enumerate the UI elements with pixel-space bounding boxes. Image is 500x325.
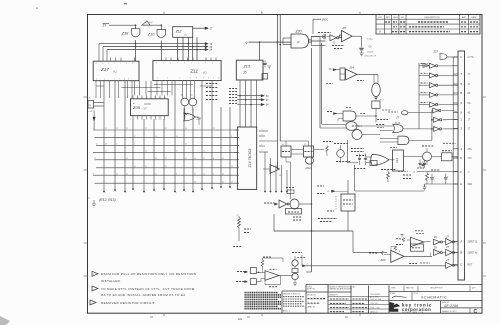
svg-text:MODEL NO: MODEL NO bbox=[307, 295, 317, 297]
svg-text:ITEM: ITEM bbox=[391, 288, 396, 290]
svg-text:2: 2 bbox=[120, 63, 121, 65]
svg-text:SHEET 1 OF 2: SHEET 1 OF 2 bbox=[442, 311, 457, 313]
svg-text:1: 1 bbox=[194, 192, 195, 194]
svg-text:K2: K2 bbox=[114, 70, 118, 74]
svg-text:2(RET 5): 2(RET 5) bbox=[468, 241, 478, 244]
svg-text:H: H bbox=[460, 182, 462, 186]
svg-text:7: 7 bbox=[163, 63, 164, 65]
svg-text:7: 7 bbox=[222, 188, 223, 190]
svg-text:INSTALLED.: INSTALLED. bbox=[101, 279, 121, 283]
svg-text:Z24: Z24 bbox=[395, 158, 399, 163]
svg-text:(Z12): (Z12) bbox=[305, 166, 311, 170]
svg-text:9: 9 bbox=[205, 63, 206, 65]
svg-text:REMOVED RESISTOR CIRCUIT.: REMOVED RESISTOR CIRCUIT. bbox=[101, 301, 156, 305]
svg-text:1: 1 bbox=[177, 63, 178, 65]
svg-text:4: 4 bbox=[104, 78, 105, 80]
svg-text:0: 0 bbox=[96, 63, 97, 65]
svg-text:15: 15 bbox=[126, 158, 128, 160]
svg-text:35: 35 bbox=[126, 128, 128, 130]
svg-text:29: 29 bbox=[433, 246, 437, 250]
svg-text:17: 17 bbox=[145, 128, 147, 130]
svg-text:Z09: Z09 bbox=[132, 105, 141, 110]
svg-text:~1.8μs: ~1.8μs bbox=[366, 39, 374, 41]
svg-text:20: 20 bbox=[203, 173, 205, 175]
svg-text:46: 46 bbox=[185, 128, 187, 130]
svg-text:6: 6 bbox=[176, 173, 177, 175]
svg-text:25: 25 bbox=[165, 158, 167, 160]
svg-text:41: 41 bbox=[155, 173, 157, 175]
svg-text:5: 5 bbox=[176, 192, 177, 194]
svg-text:6.5: 6.5 bbox=[146, 97, 148, 99]
svg-text:26: 26 bbox=[116, 128, 118, 130]
svg-text:R3 TO E3 AND INSTALL JUMPER FR: R3 TO E3 AND INSTALL JUMPER FROM P3 TO E… bbox=[101, 293, 186, 297]
svg-text:27: 27 bbox=[231, 181, 233, 183]
svg-text:9: 9 bbox=[203, 78, 204, 80]
svg-text:2(RET 4): 2(RET 4) bbox=[468, 252, 478, 255]
svg-text:0: 0 bbox=[231, 188, 232, 190]
svg-text:corporation: corporation bbox=[402, 307, 431, 312]
svg-text:8: 8 bbox=[155, 191, 156, 193]
svg-text:22: 22 bbox=[165, 166, 167, 168]
svg-text:6: 6 bbox=[212, 63, 213, 65]
svg-text:57: 57 bbox=[185, 144, 187, 146]
svg-text:6: 6 bbox=[261, 134, 262, 136]
svg-text:1: 1 bbox=[261, 139, 262, 141]
svg-text:Z7: Z7 bbox=[103, 24, 107, 28]
svg-text:.001μF: .001μF bbox=[367, 52, 374, 54]
svg-text:30: 30 bbox=[213, 128, 215, 130]
svg-text:42: 42 bbox=[222, 158, 224, 160]
svg-text:F: F bbox=[460, 170, 462, 174]
svg-text:43: 43 bbox=[165, 128, 167, 130]
svg-text:19: 19 bbox=[155, 136, 157, 138]
svg-text:27: 27 bbox=[194, 173, 196, 175]
svg-text:8: 8 bbox=[184, 63, 185, 65]
svg-text:8A: 8A bbox=[468, 102, 471, 105]
svg-text:10: 10 bbox=[297, 40, 301, 44]
svg-text:Z13: Z13 bbox=[243, 64, 250, 68]
svg-text:0: 0 bbox=[156, 63, 157, 65]
svg-text:5: 5 bbox=[231, 136, 232, 138]
svg-text:Z12: Z12 bbox=[175, 29, 182, 33]
svg-text:XXX ± .010: XXX ± .010 bbox=[371, 307, 380, 309]
svg-text:B: B bbox=[460, 251, 462, 255]
svg-text:16: 16 bbox=[94, 158, 96, 160]
svg-text:4: 4 bbox=[208, 78, 209, 80]
svg-text:Z10: Z10 bbox=[147, 32, 155, 36]
svg-text:27: 27 bbox=[445, 234, 450, 238]
svg-text:3: 3 bbox=[213, 173, 214, 175]
svg-text:9: 9 bbox=[213, 78, 214, 80]
svg-text:28: 28 bbox=[194, 181, 196, 183]
svg-text:Z8: Z8 bbox=[342, 26, 347, 30]
svg-text:14: 14 bbox=[96, 143, 98, 145]
svg-text:5.5: 5.5 bbox=[155, 97, 157, 99]
svg-text:0: 0 bbox=[190, 78, 191, 80]
svg-text:8: 8 bbox=[128, 78, 129, 80]
svg-text:DATE: DATE bbox=[471, 16, 477, 19]
svg-text:7: 7 bbox=[134, 144, 135, 146]
svg-text:6: 6 bbox=[108, 63, 109, 65]
svg-text:ANG ± 1°: ANG ± 1° bbox=[371, 310, 379, 313]
svg-text:15: 15 bbox=[203, 151, 205, 153]
svg-text:A: A bbox=[460, 240, 462, 244]
svg-text:2N5C: 2N5C bbox=[322, 19, 328, 22]
svg-text:AND 41: AND 41 bbox=[308, 306, 316, 309]
svg-text:4: 4 bbox=[203, 190, 204, 192]
svg-text:RSVM FOR PULL-UP RESISTORS ONL: RSVM FOR PULL-UP RESISTORS ONLY, NO RESI… bbox=[101, 272, 196, 276]
svg-text:Z11: Z11 bbox=[190, 68, 199, 73]
svg-text:4: 4 bbox=[213, 189, 214, 191]
svg-text:5: 5 bbox=[126, 63, 127, 65]
svg-text:LTR: LTR bbox=[378, 17, 382, 19]
svg-text:APP: APP bbox=[462, 16, 467, 19]
svg-text:6: 6 bbox=[96, 78, 97, 80]
svg-text:8: 8 bbox=[145, 192, 146, 194]
svg-text:2: 2 bbox=[198, 63, 199, 65]
svg-text:TO MAKE RTTL INSTEAD OF CTTL,: TO MAKE RTTL INSTEAD OF CTTL, CUT TRACE … bbox=[101, 287, 195, 291]
svg-text:17X: 17X bbox=[468, 157, 473, 160]
svg-text:Z18: Z18 bbox=[121, 32, 129, 36]
svg-text:+5 CLKUP: +5 CLKUP bbox=[144, 22, 153, 24]
svg-text:DESCRIPTION: DESCRIPTION bbox=[425, 17, 440, 19]
svg-text:Z27: Z27 bbox=[433, 50, 439, 54]
svg-text:Z16 74C923: Z16 74C923 bbox=[248, 149, 252, 169]
svg-text:SCHEMATIC: SCHEMATIC bbox=[421, 296, 447, 300]
svg-text:20: 20 bbox=[155, 158, 157, 160]
svg-text:6: 6 bbox=[213, 158, 214, 160]
svg-text:8: 8 bbox=[165, 190, 166, 192]
svg-text:Z14: Z14 bbox=[349, 67, 355, 70]
svg-text:SE-1746: SE-1746 bbox=[444, 304, 458, 308]
svg-text:4: 4 bbox=[124, 78, 125, 80]
svg-text:2: 2 bbox=[261, 150, 262, 152]
svg-text:φ: φ bbox=[246, 41, 248, 45]
svg-text:6AD: 6AD bbox=[468, 183, 473, 186]
svg-text:5: 5 bbox=[116, 191, 117, 193]
svg-text:C77S: C77S bbox=[468, 56, 474, 59]
svg-text:1: 1 bbox=[134, 190, 135, 192]
svg-text:/17: /17 bbox=[143, 107, 148, 111]
svg-text:18: 18 bbox=[176, 136, 178, 138]
svg-text:13: 13 bbox=[194, 158, 196, 160]
svg-text:11: 11 bbox=[203, 158, 205, 160]
svg-text:SPOKANE, WASH., U.S.A.: SPOKANE, WASH., U.S.A. bbox=[402, 311, 424, 314]
svg-text:36: 36 bbox=[116, 173, 118, 175]
svg-text:52: 52 bbox=[145, 151, 147, 153]
svg-text:4: 4 bbox=[218, 78, 219, 80]
svg-text:9: 9 bbox=[114, 63, 115, 65]
svg-text:SCALE: SCALE bbox=[390, 292, 396, 295]
svg-text:Z17: Z17 bbox=[100, 67, 109, 72]
svg-text:34: 34 bbox=[126, 173, 128, 175]
svg-text:31: 31 bbox=[222, 181, 224, 183]
svg-text:IDENT NO: IDENT NO bbox=[307, 289, 316, 291]
svg-text:27: 27 bbox=[445, 245, 450, 249]
svg-text:2: 2 bbox=[116, 144, 117, 146]
svg-text:Z20: Z20 bbox=[295, 29, 302, 33]
svg-text:(R12, R13): (R12, R13) bbox=[99, 198, 116, 202]
svg-text:6: 6 bbox=[261, 144, 262, 146]
svg-text:13: 13 bbox=[93, 173, 95, 175]
svg-text:Z7: Z7 bbox=[395, 116, 400, 119]
svg-text:8: 8 bbox=[185, 191, 186, 193]
svg-text:17: 17 bbox=[134, 136, 136, 138]
svg-text:Z20: Z20 bbox=[380, 258, 386, 262]
svg-text:50V-100V-CH: 50V-100V-CH bbox=[365, 56, 377, 58]
svg-text:DESCRIPTION: DESCRIPTION bbox=[430, 288, 443, 290]
svg-text:AS NOTED: AS NOTED bbox=[370, 295, 379, 298]
svg-text:PART NO: PART NO bbox=[406, 287, 414, 290]
svg-text:8: 8 bbox=[132, 63, 133, 65]
svg-text:4.5: 4.5 bbox=[164, 97, 166, 99]
svg-text:27S: 27S bbox=[468, 148, 473, 151]
svg-text:7.5: 7.5 bbox=[137, 97, 139, 99]
svg-text:4: 4 bbox=[170, 63, 171, 65]
svg-text:47: 47 bbox=[105, 151, 107, 153]
svg-text:27: 27 bbox=[445, 258, 450, 262]
svg-text:DEC ± 1 DIM: DEC ± 1 DIM bbox=[371, 299, 382, 301]
svg-text:8: 8 bbox=[196, 78, 197, 80]
svg-text:37: 37 bbox=[185, 158, 187, 160]
svg-text:1: 1 bbox=[167, 78, 168, 80]
svg-text:(L): (L) bbox=[185, 35, 188, 37]
svg-text:8: 8 bbox=[105, 192, 106, 194]
svg-text:13: 13 bbox=[231, 166, 233, 168]
svg-text:5: 5 bbox=[191, 63, 192, 65]
svg-text:3: 3 bbox=[102, 63, 103, 65]
svg-text:RET: RET bbox=[468, 264, 473, 267]
svg-text:53: 53 bbox=[134, 166, 136, 168]
svg-text:45: 45 bbox=[222, 173, 224, 175]
svg-text:CHG: CHG bbox=[393, 17, 398, 19]
svg-text:A: A bbox=[379, 30, 381, 34]
svg-text:4: 4 bbox=[114, 78, 115, 80]
svg-text:35: 35 bbox=[243, 71, 247, 75]
svg-text:24: 24 bbox=[93, 128, 95, 130]
svg-text:26: 26 bbox=[105, 144, 107, 146]
svg-text:LOAD: LOAD bbox=[88, 110, 93, 113]
svg-text:XX ± .03: XX ± .03 bbox=[371, 303, 378, 305]
svg-text:7: 7 bbox=[179, 78, 180, 80]
svg-text:DIMENSIONS ARE IN INCHES: DIMENSIONS ARE IN INCHES bbox=[329, 288, 353, 291]
svg-text:31: 31 bbox=[105, 128, 107, 130]
svg-text:REV: REV bbox=[386, 17, 391, 19]
svg-text:52: 52 bbox=[145, 166, 147, 168]
svg-text:31: 31 bbox=[176, 151, 178, 153]
svg-text:1: 1 bbox=[261, 129, 262, 131]
svg-text:K2: K2 bbox=[204, 71, 208, 75]
svg-text:9: 9 bbox=[119, 78, 120, 80]
svg-text:ANG ± 1: ANG ± 1 bbox=[283, 310, 290, 313]
svg-text:5: 5 bbox=[126, 192, 127, 194]
svg-text:25: 25 bbox=[433, 235, 437, 239]
svg-text:C: C bbox=[474, 309, 478, 315]
svg-text:1: 1 bbox=[157, 78, 158, 80]
